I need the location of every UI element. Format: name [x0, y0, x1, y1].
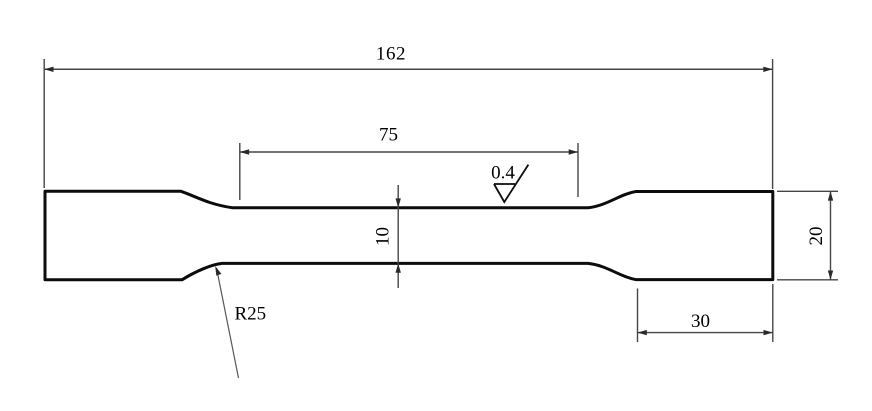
dimension 30: left extension line: [637, 289, 639, 343]
dimension 75: right extension line: [577, 143, 579, 197]
dimension 20: bottom extension line: [777, 279, 838, 281]
dimension 75: right arrowhead: [569, 149, 578, 154]
svg-text:R25: R25: [235, 304, 267, 325]
dimension 162: left arrowhead: [44, 67, 53, 72]
dimension 20: top extension line: [777, 190, 838, 192]
svg-text:20: 20: [806, 227, 827, 246]
dimension 10: vertical dimension line through narrow section: [397, 185, 399, 288]
dimension 20: bottom arrowhead: [828, 271, 833, 280]
svg-text:0.4: 0.4: [491, 163, 515, 184]
surface roughness symbol: check mark: [494, 165, 528, 202]
surface roughness symbol: top bar of triangle: [494, 183, 515, 185]
dimension 162: right arrowhead: [763, 67, 772, 72]
svg-text:75: 75: [379, 124, 398, 145]
svg-text:10: 10: [373, 227, 394, 246]
dimension 20: dimension line: [830, 191, 832, 279]
dimension 162: right extension line: [772, 59, 774, 189]
dimension 10: lower arrowhead pointing up: [396, 263, 401, 272]
dimension 162: left extension line: [43, 59, 45, 188]
dimension 75: dimension line: [240, 151, 578, 153]
dimension 30: left arrowhead: [638, 330, 647, 335]
dimension 20: top arrowhead: [828, 191, 833, 200]
dimension 75: left arrowhead: [240, 149, 249, 154]
dimension 30: right arrowhead: [764, 330, 773, 335]
fillet radius R25: leader line: [217, 268, 239, 378]
specimen outline (dog-bone tensile test piece): [45, 191, 773, 279]
dimension 30: right extension line: [772, 284, 774, 342]
svg-text:30: 30: [691, 311, 710, 332]
dimension 30: dimension line: [638, 332, 773, 334]
dimension 162: dimension line: [44, 68, 772, 70]
fillet radius R25: leader arrowhead: [215, 266, 221, 276]
svg-text:162: 162: [376, 44, 406, 65]
dimension 10: upper arrowhead pointing down: [396, 198, 401, 207]
dimension 75: left extension line: [239, 143, 241, 200]
